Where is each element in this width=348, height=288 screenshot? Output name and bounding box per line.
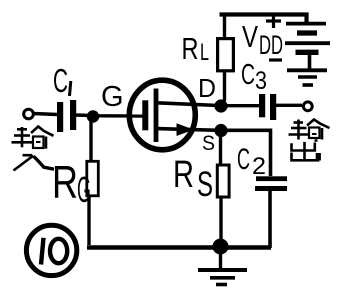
svg-text:C: C bbox=[241, 59, 255, 91]
wire source node to RS bbox=[219, 135, 222, 164]
capacitor C1 bbox=[57, 100, 76, 132]
svg-text:R: R bbox=[182, 31, 199, 66]
label C1 bbox=[53, 62, 71, 99]
label RS bbox=[173, 154, 213, 204]
node bottom junction bbox=[213, 239, 229, 255]
svg-text:DD: DD bbox=[259, 30, 283, 60]
label C2 bbox=[237, 143, 266, 180]
label VDD bbox=[242, 19, 283, 60]
wire bottom rail bbox=[87, 245, 271, 250]
wire C1 to gate node bbox=[76, 113, 90, 117]
svg-text:3: 3 bbox=[255, 67, 267, 95]
capacitor C2 bbox=[255, 176, 287, 191]
label RG bbox=[52, 156, 91, 210]
wire gate node to RG bbox=[89, 120, 92, 160]
wire C3 to output terminal bbox=[276, 104, 302, 107]
wire drain node to RL bbox=[223, 71, 226, 101]
battery VDD bbox=[285, 24, 330, 69]
wire RL to top rail bbox=[223, 15, 226, 38]
wire drain node to C3 bbox=[226, 104, 259, 107]
label D bbox=[198, 73, 216, 103]
transistor gate bar bbox=[142, 100, 148, 130]
wire C2 to bottom rail bbox=[268, 191, 272, 248]
输入 input label bbox=[12, 127, 55, 171]
svg-text:2: 2 bbox=[252, 153, 266, 180]
svg-text:C: C bbox=[53, 62, 68, 99]
gate wire bbox=[96, 114, 143, 118]
node source junction bbox=[214, 124, 227, 137]
wire top rail to battery bbox=[220, 15, 307, 24]
ground (battery) bbox=[287, 70, 327, 85]
ground (bottom) bbox=[198, 252, 247, 285]
svg-text:S: S bbox=[202, 132, 215, 155]
node gate junction bbox=[87, 110, 99, 122]
resistor RS bbox=[217, 165, 229, 197]
figure number 10 bbox=[26, 225, 76, 275]
输出 output label bbox=[289, 120, 330, 162]
svg-text:D: D bbox=[198, 73, 216, 103]
resistor RG bbox=[87, 161, 99, 196]
transistor V1 FET body circle bbox=[129, 80, 195, 150]
svg-text:C: C bbox=[237, 143, 250, 176]
capacitor C3 bbox=[259, 94, 276, 120]
label RL bbox=[182, 31, 210, 66]
svg-text:R: R bbox=[173, 154, 194, 196]
wire RS to bottom junction bbox=[219, 198, 222, 242]
label C3 bbox=[241, 59, 267, 95]
node drain junction bbox=[214, 99, 227, 112]
wire RG to bottom rail bbox=[87, 197, 90, 245]
transistor channel bar bbox=[154, 89, 159, 143]
transistor drain lead bbox=[157, 103, 218, 106]
resistor RL bbox=[218, 39, 234, 71]
wire input to C1 bbox=[34, 114, 58, 115]
svg-text:G: G bbox=[101, 81, 124, 113]
wire source node to C2 corner bbox=[226, 130, 271, 176]
minus sign bbox=[269, 58, 282, 61]
transistor source lead with arrow bbox=[157, 123, 218, 136]
plus sign bbox=[266, 13, 281, 28]
svg-text:R: R bbox=[52, 156, 78, 208]
svg-text:S: S bbox=[197, 165, 213, 204]
output terminal bbox=[303, 102, 312, 111]
svg-text:L: L bbox=[200, 39, 209, 66]
input terminal bbox=[24, 109, 34, 119]
label G bbox=[101, 81, 124, 113]
svg-text:V: V bbox=[242, 19, 258, 54]
label S bbox=[202, 132, 215, 155]
